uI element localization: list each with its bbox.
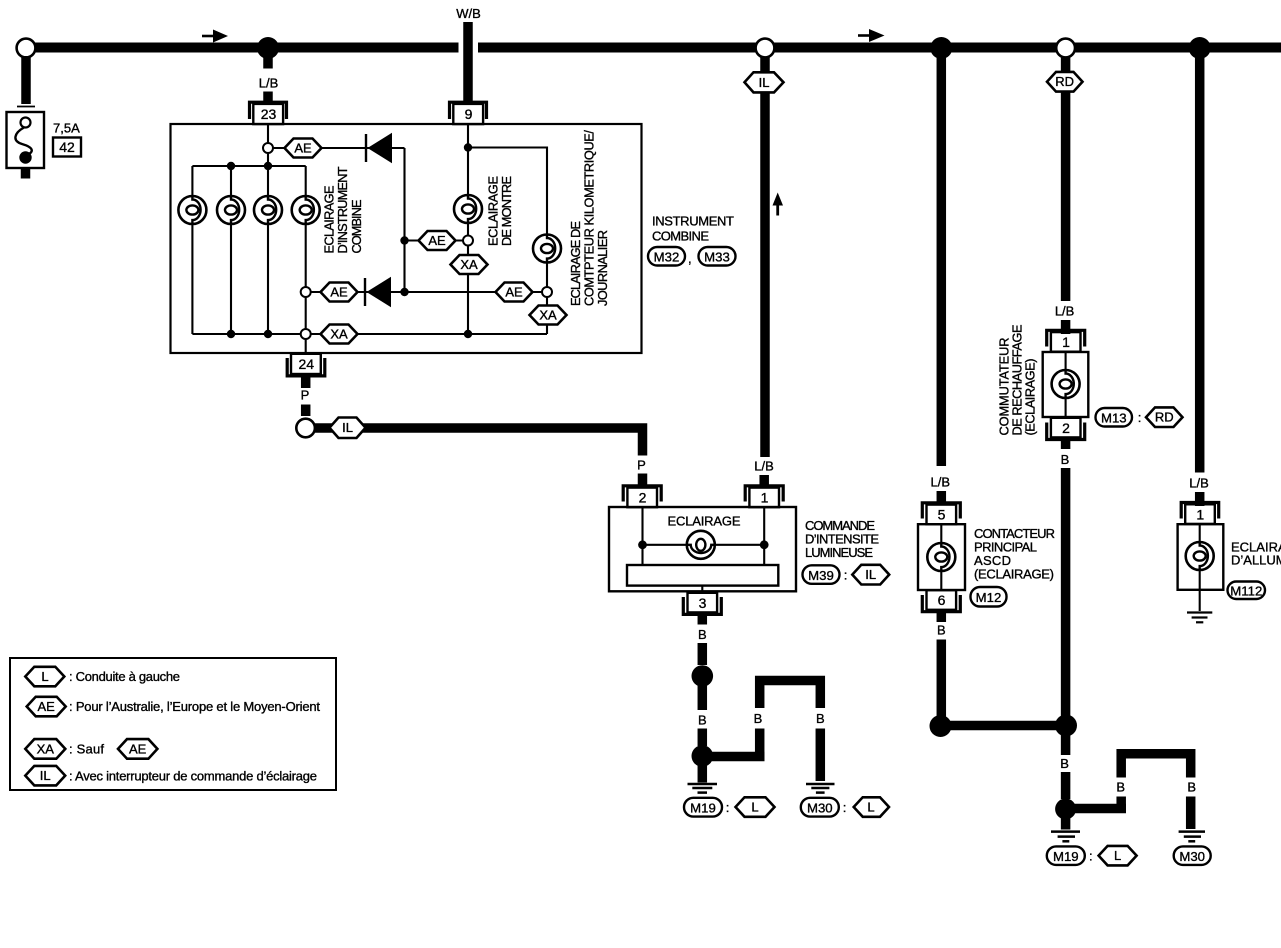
- svg-text:1: 1: [1196, 506, 1204, 522]
- connector 6 (contacteur principal ASCD): [922, 590, 960, 612]
- svg-text:IL: IL: [40, 768, 51, 783]
- junction dot dimmer left: [638, 540, 647, 549]
- wire: stub below connector 3: [698, 614, 708, 625]
- junction dot link splice (rechauffage): [1055, 715, 1077, 737]
- option flag IL (on jumper): [330, 418, 366, 439]
- top rail of instrument lamps: [192, 165, 305, 167]
- svg-text:XA: XA: [539, 308, 557, 323]
- svg-text:B: B: [937, 623, 946, 638]
- svg-text:(ECLAIRAGE): (ECLAIRAGE): [1023, 359, 1038, 436]
- option flag AE (row1): [285, 139, 322, 158]
- wire: W/B feed crossing the bus down to connector 9: [463, 22, 473, 102]
- svg-text:B: B: [1060, 756, 1069, 771]
- junction dot bottom splice (ASCD): [930, 715, 952, 737]
- svg-text:AE: AE: [294, 141, 312, 156]
- wire: n-jumper right leg lower: [816, 729, 826, 782]
- wire: segment to ground splice: [1061, 772, 1071, 799]
- svg-text:M30: M30: [1179, 849, 1205, 864]
- ground ref M112: [1228, 582, 1266, 600]
- node: open terminal on bus (RD feed): [1056, 39, 1075, 58]
- node: XA option circle on bottom rail: [301, 329, 311, 339]
- wire: stub above connector 2: [638, 474, 648, 489]
- connector 24 (instrument combine bottom): [287, 354, 325, 376]
- component box: commande d'intensite lumineuse: [609, 507, 796, 591]
- svg-text:B: B: [1116, 779, 1125, 794]
- option flag XA (montre): [451, 255, 488, 274]
- wire: stub below connector 2: [1061, 441, 1071, 450]
- junction dot montre AE tap: [400, 236, 408, 244]
- wire: n-jumper left leg lower (right cluster): [1116, 797, 1126, 814]
- svg-text:L: L: [41, 669, 48, 684]
- svg-text:1: 1: [1062, 334, 1070, 350]
- wire: stub below connector 6: [937, 612, 947, 622]
- junction dot ground splice: [692, 745, 714, 767]
- wire: rheostat to connector 3: [701, 586, 703, 593]
- wire: thick IL feed down to dimmer connector 1: [760, 58, 770, 458]
- option flag AE (legend): [27, 697, 66, 717]
- wire: branch from ground splice to n-jumper: [702, 752, 764, 762]
- wire: stub above connector 1: [759, 475, 769, 489]
- svg-text:COMBINE: COMBINE: [349, 200, 364, 254]
- svg-text:M33: M33: [704, 250, 730, 265]
- node: AE option circle on 23 lead: [263, 143, 273, 153]
- wire: branch from right ground splice to n-jumper: [1066, 804, 1126, 814]
- lamp 4 branch wire (continues to connector 24): [305, 166, 307, 353]
- diode D2: [365, 277, 391, 307]
- svg-text:M30: M30: [807, 801, 833, 816]
- wire: internal lead top: [940, 524, 942, 543]
- fuse F 7.5A box: [7, 112, 45, 168]
- connector ref M32: [648, 247, 685, 266]
- wire: connector23 lead down inside box: [267, 124, 269, 166]
- svg-text::: :: [1138, 410, 1142, 425]
- wire: internal lead top (allumage): [1199, 524, 1201, 542]
- wire: thick IL jumper to light dimmer connector 2: [315, 428, 643, 456]
- svg-text:6: 6: [938, 592, 946, 608]
- svg-text:P: P: [637, 458, 646, 473]
- svg-text:AE: AE: [505, 285, 523, 300]
- connector ref M33: [699, 247, 736, 266]
- fuse holder tick: [17, 106, 35, 108]
- svg-text:,: ,: [688, 251, 692, 266]
- option flag XA (odometer): [530, 306, 567, 325]
- svg-text:AE: AE: [330, 285, 348, 300]
- lamp: ASCD illumination: [927, 543, 955, 571]
- svg-text:L: L: [1114, 848, 1121, 863]
- label: INSTRUMENT COMBINE: [652, 213, 734, 243]
- wire: stub above ground M19 right: [1061, 816, 1071, 830]
- svg-text:B: B: [754, 711, 763, 726]
- ground ref M30: [801, 798, 839, 817]
- svg-text:D’ALLUMAGE: D’ALLUMAGE: [1231, 553, 1281, 568]
- wire: diode row1 output down to row 292: [403, 148, 405, 292]
- option flag AE (montre): [419, 231, 456, 250]
- lamp: rechauffage illumination: [1052, 370, 1080, 398]
- option flag L (at M19 right): [1099, 846, 1137, 866]
- component box: commutateur de rechauffage: [1043, 352, 1089, 417]
- wire: stub above ground M19: [698, 765, 708, 783]
- lamp 4: [292, 196, 320, 224]
- connector 1 (eclairage d'allumage): [1181, 503, 1219, 524]
- component box: eclairage d'allumage: [1178, 524, 1224, 590]
- wire: main power bus left segment: [33, 43, 459, 53]
- svg-text:M12: M12: [976, 590, 1002, 605]
- ground ref M19: [684, 798, 722, 817]
- svg-text:JOURNALIER: JOURNALIER: [595, 230, 610, 306]
- wire: stub above P terminal circle: [301, 405, 311, 417]
- bottom rail of instrument lamps: [192, 333, 547, 335]
- svg-text:L: L: [867, 800, 874, 815]
- svg-text::: :: [843, 800, 847, 815]
- wire: n-jumper left leg lower: [755, 729, 765, 762]
- wire: stub from L/B to connector 23: [263, 92, 273, 103]
- option flag AE (legend sauf): [118, 739, 157, 759]
- label: eclairage d'instrument combine (rotated): [322, 166, 365, 253]
- svg-text:42: 42: [59, 139, 75, 155]
- svg-text:: Avec interrupteur de command: : Avec interrupteur de commande d’éclair…: [69, 769, 317, 784]
- wire: feed from bus to ASCD switch: [937, 52, 947, 466]
- svg-text:L: L: [751, 800, 758, 815]
- wire: AE branch to diode row 1: [273, 147, 405, 149]
- svg-text:23: 23: [261, 106, 277, 122]
- option flag IL (at M39): [852, 565, 889, 585]
- ground ref M19 (right): [1047, 846, 1085, 865]
- wire: drop from terminal to fuse 42: [21, 56, 31, 104]
- ground symbol M30: [806, 784, 835, 793]
- arrow: up arrow beside IL feed: [773, 193, 784, 216]
- option flag IL (top feed): [745, 72, 784, 92]
- svg-text:COMBINE: COMBINE: [652, 228, 709, 243]
- fuse element symbol: [15, 118, 31, 164]
- node: AE option circle on odometer line: [542, 287, 552, 297]
- svg-text:M32: M32: [654, 250, 680, 265]
- option flag L (at M19): [736, 797, 775, 817]
- svg-text:XA: XA: [330, 327, 348, 342]
- label: eclairage de montre (rotated): [486, 176, 515, 246]
- svg-text:IL: IL: [759, 75, 770, 90]
- svg-text:L/B: L/B: [1055, 304, 1075, 319]
- wire: rechauffage down to ground splice: [1061, 468, 1071, 716]
- lamp 3: [254, 196, 282, 224]
- svg-text:P: P: [301, 388, 310, 403]
- junction dot on bus (allumage feed): [1189, 37, 1211, 59]
- wire: stub above connector 5: [937, 491, 947, 505]
- svg-text:2: 2: [1062, 420, 1070, 436]
- svg-text:IL: IL: [342, 420, 353, 435]
- wire: montre lamp line from connector 9: [467, 124, 469, 334]
- svg-text:: Pour l’Australie, l’Europe e: : Pour l’Australie, l’Europe et le Moyen…: [69, 699, 320, 714]
- junction dot dimmer right: [760, 540, 769, 549]
- junction dot bottom rail lamp3: [264, 330, 272, 338]
- svg-text:: Sauf: : Sauf: [69, 741, 104, 756]
- option flag RD (top feed): [1047, 72, 1083, 92]
- label: COMMUTATEUR DE RECHAUFFAGE (ECLAIRAGE) rotated: [997, 325, 1038, 436]
- option flag XA (bottom rail): [321, 325, 358, 344]
- lamp 2 branch wire: [230, 166, 232, 334]
- junction dot odometer branch split: [464, 143, 472, 151]
- connector ref M13: [1096, 408, 1133, 427]
- svg-text::: :: [726, 800, 730, 815]
- svg-text:B: B: [698, 713, 707, 728]
- ground symbol M30 (right): [1179, 832, 1205, 842]
- lamp 2: [217, 196, 245, 224]
- svg-text:L/B: L/B: [931, 475, 951, 490]
- wire: odometer branch top: [468, 148, 547, 335]
- svg-text:B: B: [698, 627, 707, 642]
- option flag RD (at M13): [1146, 407, 1183, 427]
- svg-text:XA: XA: [460, 257, 478, 272]
- svg-text:7,5A: 7,5A: [53, 121, 80, 136]
- arrow: current direction on bus (right): [858, 29, 885, 42]
- wire: stub below fuse box: [21, 168, 31, 179]
- option flag XA (legend): [25, 739, 65, 759]
- wire: stub below connector 24: [301, 378, 311, 389]
- svg-text:3: 3: [699, 595, 707, 611]
- option flag AE (odometer row2 right): [496, 283, 533, 302]
- label: CONTACTEUR PRINCIPAL ASCD (ECLAIRAGE): [974, 526, 1055, 582]
- junction dot rail/lamp3: [264, 162, 272, 170]
- svg-text:B: B: [1187, 779, 1196, 794]
- wire: stub above connector 1: [1061, 320, 1071, 334]
- lamp montre (eclairage de montre): [454, 195, 482, 223]
- node: AE option circle on lamp4 line row 292: [301, 287, 311, 297]
- diode D1: [366, 133, 392, 163]
- ground symbol M19: [688, 784, 718, 793]
- svg-text:: Conduite à gauche: : Conduite à gauche: [69, 669, 180, 684]
- wire: lead to ground (allumage): [1199, 570, 1201, 611]
- wire: dimmer internal lamp row: [643, 544, 765, 546]
- connector 1 (commutateur de rechauffage): [1047, 330, 1085, 351]
- node: open terminal on bus above fuse: [17, 39, 36, 58]
- svg-text:L/B: L/B: [754, 459, 774, 474]
- option flag L (legend): [25, 667, 64, 687]
- wire: segment to bottom splice: [937, 640, 947, 719]
- component box: instrument combine: [171, 124, 642, 353]
- svg-text:AE: AE: [428, 233, 446, 248]
- svg-text:ECLAIRAGE: ECLAIRAGE: [668, 514, 741, 529]
- svg-text:RD: RD: [1155, 410, 1174, 425]
- option flag IL (legend): [25, 766, 65, 786]
- svg-text::: :: [1089, 849, 1093, 864]
- svg-text:M19: M19: [1053, 849, 1079, 864]
- svg-text:5: 5: [938, 507, 946, 523]
- svg-text:(ECLAIRAGE): (ECLAIRAGE): [974, 567, 1054, 582]
- wire: AE row 2: [311, 291, 543, 293]
- svg-text:M13: M13: [1101, 411, 1127, 426]
- svg-text:L/B: L/B: [259, 76, 279, 91]
- connector 2 (commutateur de rechauffage): [1047, 418, 1085, 440]
- component box: contacteur principal ASCD: [918, 524, 965, 590]
- connector 3 (commande d'intensite lumineuse bottom): [683, 593, 721, 615]
- wire: link to rechauffage ground line: [941, 721, 1067, 731]
- fuse number box 42: [53, 138, 81, 157]
- junction dot splice (upper): [692, 665, 714, 687]
- wire: stub above connector 1 (allumage): [1195, 492, 1205, 506]
- junction dot ground splice (right): [1055, 799, 1076, 820]
- svg-text:2: 2: [639, 490, 647, 506]
- wire: n-jumper top (M19 to M30 link): [760, 681, 821, 709]
- junction dot bottom rail montre line: [464, 330, 472, 338]
- svg-text:LUMINEUSE: LUMINEUSE: [805, 545, 873, 560]
- svg-text:AE: AE: [38, 699, 56, 714]
- svg-text:XA: XA: [37, 741, 55, 756]
- connector ref M39: [803, 565, 840, 584]
- junction dot bottom rail lamp2: [227, 330, 235, 338]
- wire: segment to ground splice: [698, 729, 708, 747]
- svg-text:B: B: [816, 711, 825, 726]
- wire: main power bus right segment: [478, 43, 1281, 53]
- label: eclairage de comptometre kilometrique/journalier (rotated): [568, 130, 610, 306]
- connector 5 (contacteur principal ASCD): [922, 503, 960, 524]
- label: ECLAIRAGE D'ALLUMAGE (clipped at edge): [1231, 540, 1281, 568]
- arrow: current direction on bus (left): [202, 30, 228, 43]
- svg-text:D’INSTRUMENT: D’INSTRUMENT: [335, 166, 350, 253]
- lamp odometer (eclairage de comptometre): [533, 235, 561, 263]
- wire: n-jumper top (right cluster): [1121, 754, 1191, 778]
- label: COMMANDE D'INTENSITE LUMINEUSE: [805, 518, 879, 560]
- wire: stub from bus to L/B label: [263, 55, 273, 69]
- junction dot on bus (ASCD feed): [930, 37, 952, 59]
- svg-text:RD: RD: [1055, 74, 1074, 89]
- wire: segment below link splice: [1061, 734, 1071, 755]
- wire: segment to splice: [698, 643, 708, 665]
- svg-text:AE: AE: [129, 741, 147, 756]
- svg-text:INSTRUMENT: INSTRUMENT: [652, 213, 734, 228]
- wire: internal lead top: [1065, 352, 1067, 370]
- svg-text:W/B: W/B: [456, 6, 481, 21]
- wire: dimmer internal left lead: [641, 507, 643, 565]
- wire: feed from bus to eclairage d'allumage: [1195, 52, 1205, 473]
- lamp 1 branch wire: [191, 166, 193, 334]
- junction dot on bus at L/B drop: [257, 37, 279, 59]
- connector 2 (commande d'intensite lumineuse): [623, 486, 661, 507]
- node: AE option circle on montre line: [463, 236, 473, 246]
- connector ref M12: [971, 587, 1007, 607]
- svg-text:IL: IL: [865, 567, 876, 582]
- option flag AE (row2 left): [321, 283, 358, 302]
- svg-text:L/B: L/B: [1189, 476, 1209, 491]
- svg-text:M19: M19: [690, 801, 716, 816]
- svg-text:9: 9: [465, 106, 473, 122]
- svg-text:DE MONTRE: DE MONTRE: [499, 176, 514, 246]
- lamp: dimmer pilot lamp: [687, 531, 715, 559]
- ground symbol M19 (right): [1051, 832, 1080, 842]
- wire: dimmer internal right lead: [763, 507, 765, 565]
- option flag L (at M30): [854, 797, 889, 817]
- lamp 3 branch wire: [267, 166, 269, 334]
- node: open terminal on bus (IL feed): [756, 39, 775, 58]
- svg-text:M112: M112: [1230, 583, 1262, 598]
- lamp: allumage illumination: [1186, 542, 1214, 570]
- legend box: [10, 658, 336, 790]
- wire: feed from bus to rechauffage switch: [1061, 58, 1071, 302]
- svg-text:B: B: [1061, 452, 1070, 467]
- wire: internal lead bottom: [1065, 398, 1067, 417]
- wire: montre AE branch: [405, 239, 464, 241]
- svg-text:1: 1: [761, 490, 769, 506]
- lamp 1 (eclairage d'instrument combine): [178, 196, 206, 224]
- junction dot diode output row292: [400, 288, 408, 296]
- svg-text:24: 24: [299, 356, 315, 372]
- wire: internal lead bottom: [940, 571, 942, 590]
- junction dot rail/lamp2: [227, 162, 235, 170]
- ground ref M30 (right): [1174, 846, 1211, 865]
- wire: n-jumper right leg lower (right cluster): [1186, 797, 1196, 830]
- svg-text::: :: [844, 568, 848, 583]
- connector 9 (instrument combine): [450, 102, 487, 124]
- connector 23 (instrument combine): [250, 102, 287, 124]
- svg-text:M39: M39: [808, 568, 834, 583]
- ground symbol M112: [1187, 613, 1212, 623]
- wire: segment below splice: [698, 684, 708, 710]
- connector 1 (commande d'intensite lumineuse): [745, 486, 783, 507]
- resistor: dimmer rheostat bar: [627, 565, 778, 586]
- node: open terminal circle (P / IL): [296, 419, 315, 438]
